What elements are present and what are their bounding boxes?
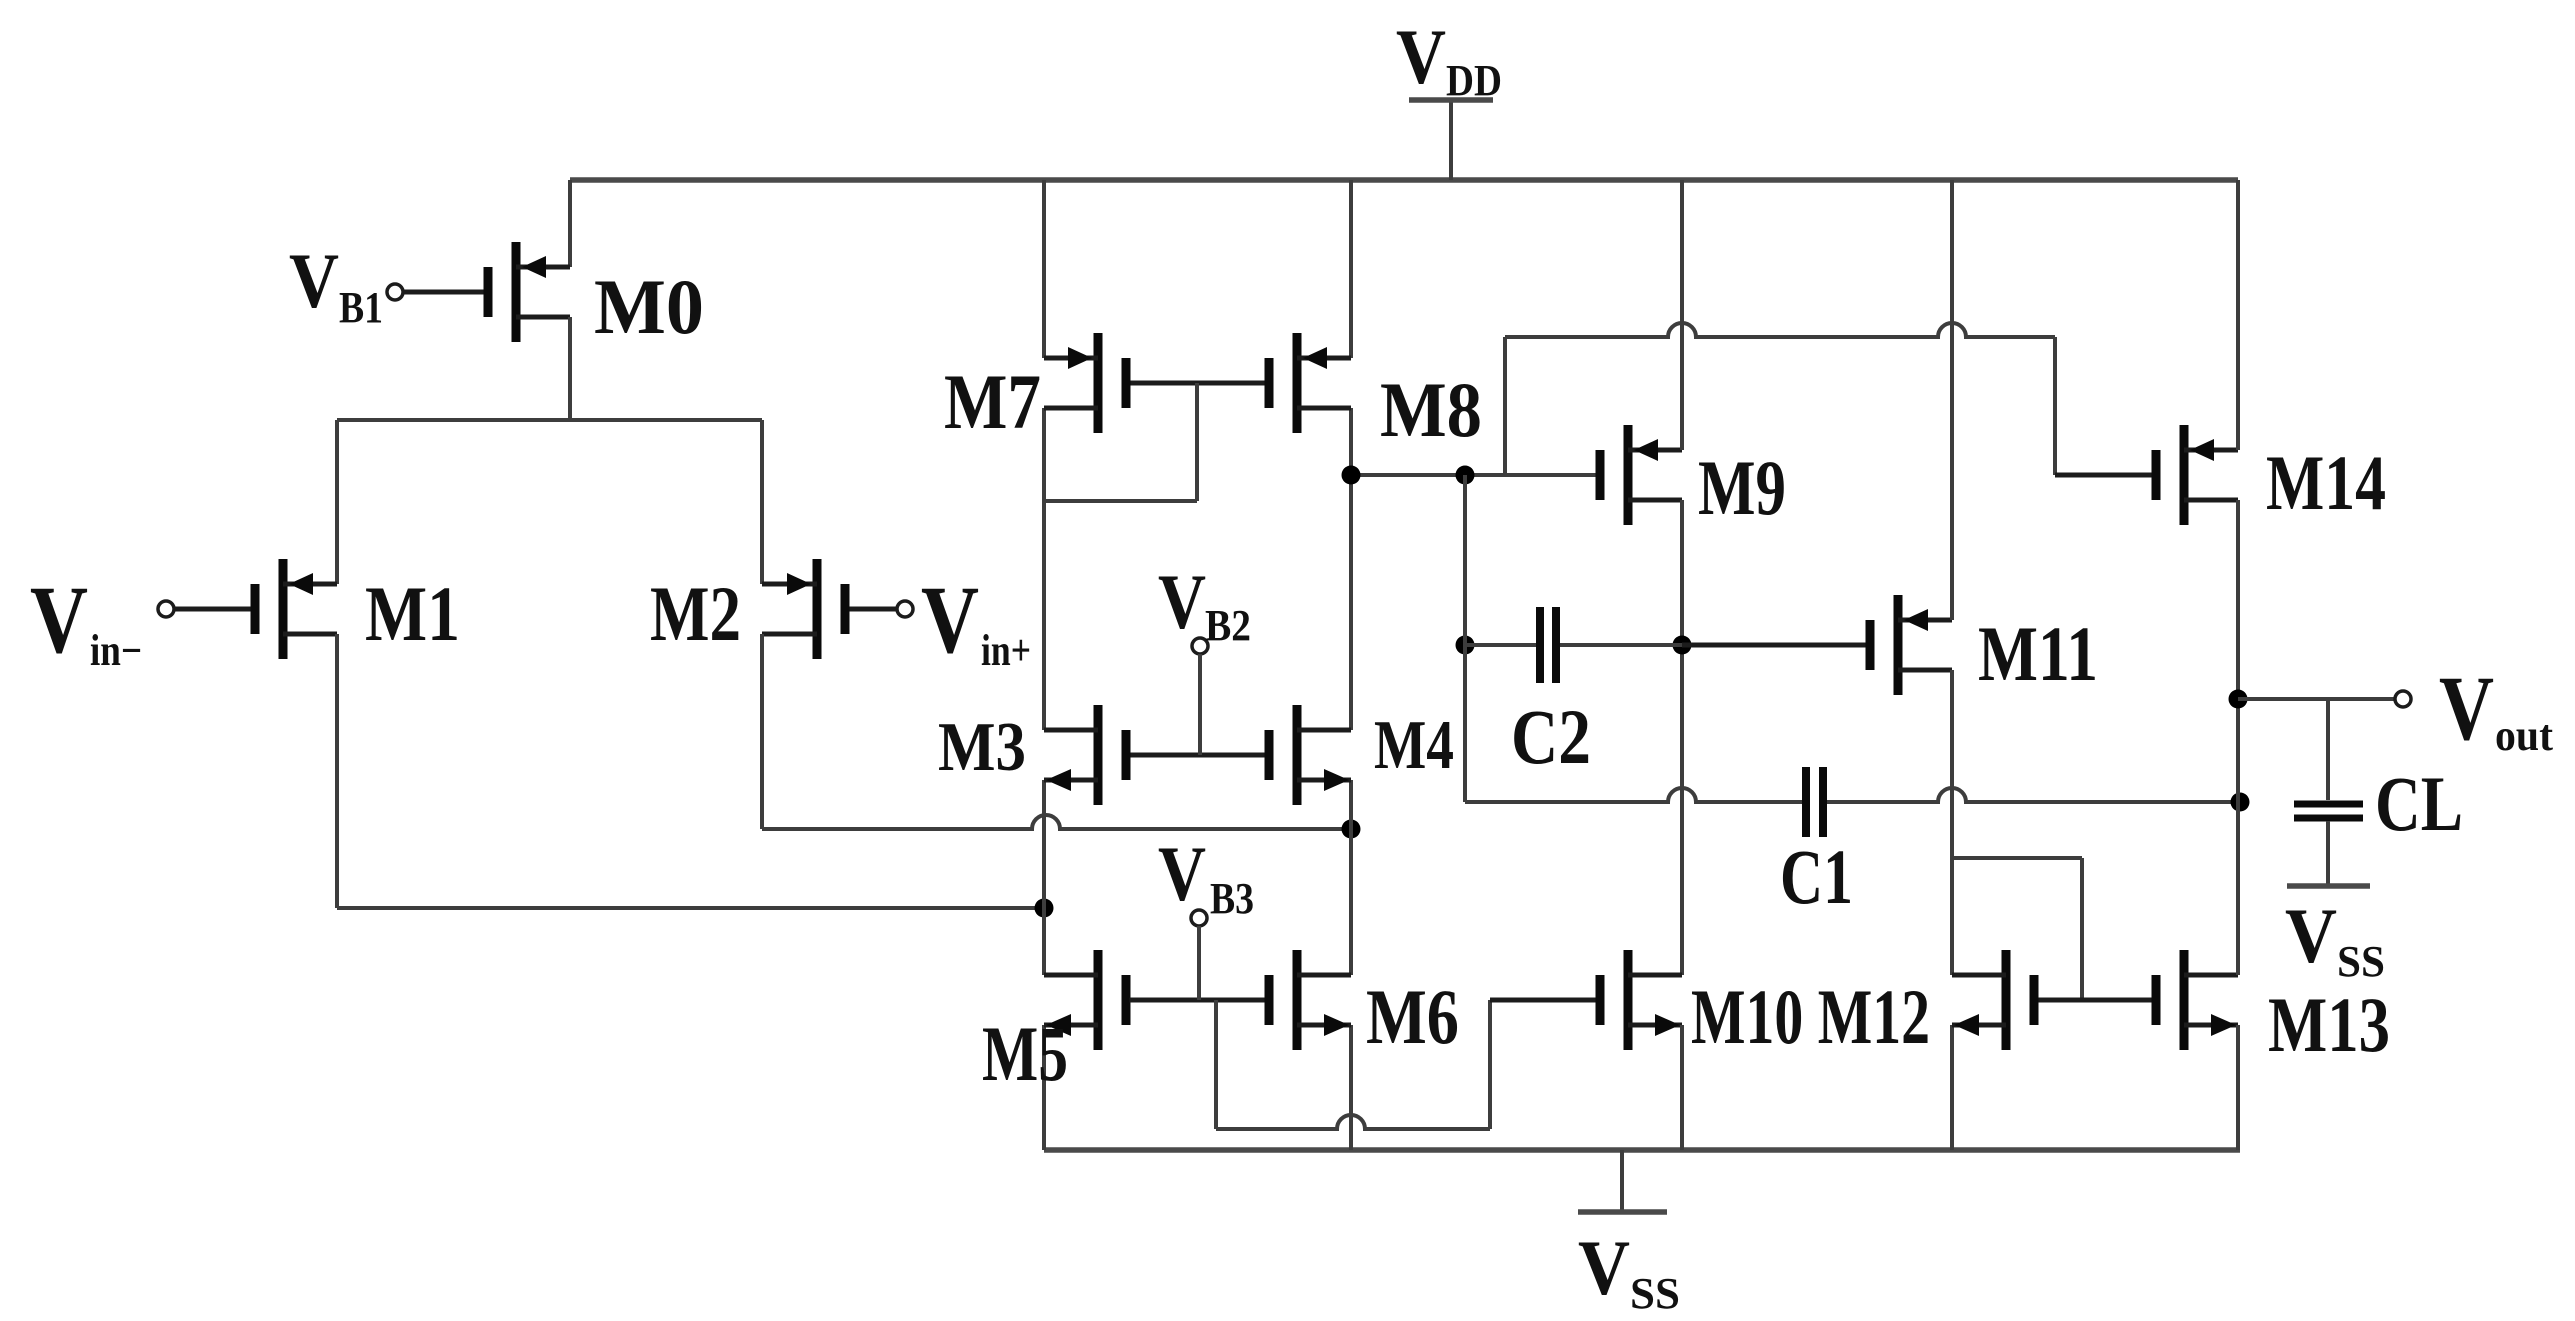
wire M12 M13 gate lead <box>2039 998 2152 1003</box>
svg-text:V: V <box>2285 892 2337 979</box>
node junction M1-M3-M5 <box>1035 899 1054 918</box>
svg-text:V: V <box>1578 1224 1630 1311</box>
svg-text:V: V <box>2439 657 2494 759</box>
power VDD symbol <box>1396 13 1502 180</box>
node junction C2 top <box>1456 466 1475 485</box>
wire node to M14 gate <box>1505 323 2152 475</box>
wire M7 gate-drain diode connection <box>1044 383 1197 501</box>
transistor M4 <box>1265 705 1455 805</box>
transistor M7 <box>944 333 1131 445</box>
svg-text:M11: M11 <box>1978 610 2098 697</box>
svg-text:V: V <box>1158 830 1206 917</box>
node Vin+ <box>850 566 1032 675</box>
wire VDD top rail <box>570 177 2238 183</box>
node Vout terminal <box>2238 657 2553 760</box>
svg-text:M9: M9 <box>1698 444 1786 531</box>
wire M1 M2 source rail <box>337 418 762 422</box>
power VSS symbol bottom <box>1578 1150 1680 1318</box>
svg-text:M0: M0 <box>594 263 704 350</box>
transistor M3 <box>938 705 1131 805</box>
capacitor CL <box>2294 699 2463 884</box>
wire M1 drain down <box>335 634 339 908</box>
wire M1 source up <box>335 420 339 584</box>
svg-text:out: out <box>2495 711 2553 760</box>
transistor M11 <box>1866 595 2099 697</box>
svg-text:DD: DD <box>1446 56 1502 105</box>
svg-text:in−: in− <box>90 626 142 675</box>
capacitor C1 <box>1465 767 2240 920</box>
wire M12 source to VSS rail <box>1950 1025 1954 1150</box>
wire VDD rail to M8 source <box>1349 180 1353 358</box>
transistor M8 <box>1265 333 1483 453</box>
wire M5 gate net to M10 gate <box>1216 1000 1596 1129</box>
transistor M9 <box>1596 425 1787 531</box>
transistor M0 <box>484 242 705 350</box>
svg-text:M14: M14 <box>2266 439 2386 526</box>
node Vin- <box>30 566 251 675</box>
transistor M14 <box>2152 425 2387 526</box>
svg-text:B1: B1 <box>339 283 383 332</box>
svg-text:M4: M4 <box>1374 707 1454 784</box>
node VB1 <box>289 237 484 332</box>
wire M3 source to M5 drain <box>1042 780 1046 975</box>
wire M2 drain to M6 node <box>762 815 1351 829</box>
node junction C2 right <box>1673 636 1692 655</box>
svg-text:B3: B3 <box>1210 874 1254 923</box>
svg-text:M8: M8 <box>1380 366 1482 453</box>
transistor M5 <box>982 950 1131 1097</box>
wire M6 source to VSS rail <box>1349 1025 1353 1150</box>
power VSS symbol at CL <box>2285 886 2385 986</box>
svg-text:V: V <box>289 237 339 324</box>
wire C2 left vertical <box>1463 475 1467 802</box>
svg-text:SS: SS <box>2337 937 2385 986</box>
wire M1 drain to M5 node <box>337 906 1044 910</box>
node junction Vout <box>2229 690 2248 709</box>
transistor M12 <box>1952 950 2039 1050</box>
capacitor C2 <box>1465 607 1682 780</box>
svg-text:C2: C2 <box>1511 693 1591 780</box>
wire VDD rail to M14 source <box>2236 180 2240 450</box>
wire M10 source to VSS rail <box>1680 1025 1684 1150</box>
wire VSS bottom rail <box>1044 1147 2240 1153</box>
svg-text:SS: SS <box>1630 1269 1680 1318</box>
wire M7 M8 gate lead <box>1131 381 1265 386</box>
transistor M10 <box>1596 950 1931 1060</box>
svg-text:B2: B2 <box>1205 601 1251 650</box>
transistor M2 <box>650 559 850 659</box>
wire VDD rail to M9 source <box>1680 180 1684 450</box>
wire M0 source to VDD rail <box>568 180 572 267</box>
node junction M2-M4-M6 <box>1342 820 1361 839</box>
node VB3 <box>1158 830 1254 1000</box>
node junction C2 left <box>1456 636 1475 655</box>
svg-text:V: V <box>1158 558 1206 645</box>
svg-text:M7: M7 <box>944 358 1041 445</box>
svg-text:V: V <box>921 566 979 673</box>
svg-text:M1: M1 <box>365 570 460 657</box>
wire M8 drain node to M9 gate <box>1351 473 1596 477</box>
transistor M13 <box>2152 950 2391 1068</box>
wire M2 source up <box>760 420 764 584</box>
transistor M6 <box>1265 950 1460 1060</box>
wire M0 drain to tail node <box>568 317 572 420</box>
svg-text:in+: in+ <box>981 626 1031 675</box>
svg-text:M10 M12: M10 M12 <box>1691 973 1930 1060</box>
wire VDD rail to M7 source <box>1042 180 1046 358</box>
wire M3 M4 gate lead <box>1131 753 1265 758</box>
svg-text:CL: CL <box>2375 760 2463 847</box>
svg-text:M5: M5 <box>982 1010 1068 1097</box>
transistor M1 <box>251 559 461 659</box>
wire C2 to M11 gate <box>1682 643 1866 648</box>
wire M11 drain to M12 drain <box>1950 670 1954 975</box>
svg-text:M6: M6 <box>1366 973 1459 1060</box>
wire M9 drain down to M10 <box>1680 500 1684 975</box>
wire M13 source to VSS rail <box>2236 1025 2240 1150</box>
wire M5 M6 gate lead <box>1130 998 1265 1003</box>
wire M8 drain to M4 drain <box>1349 408 1353 730</box>
svg-text:M3: M3 <box>938 709 1026 786</box>
wire M12 gate-drain diode connection <box>1952 858 2082 1000</box>
svg-text:M13: M13 <box>2268 981 2390 1068</box>
wire VDD rail to M11 source <box>1950 180 1954 620</box>
svg-text:V: V <box>1396 13 1446 100</box>
node junction C1 right <box>2231 793 2250 812</box>
svg-text:C1: C1 <box>1780 833 1853 920</box>
svg-text:M2: M2 <box>650 570 741 657</box>
wire M2 drain down <box>760 634 764 829</box>
svg-text:V: V <box>30 566 88 673</box>
node junction M8-M4 <box>1342 466 1361 485</box>
wire M7 drain to M3 drain <box>1042 408 1046 730</box>
wire M14 drain to output <box>2236 500 2240 975</box>
wire M4 source to M6 drain <box>1349 780 1353 975</box>
wire M5 source to VSS rail <box>1042 1025 1046 1150</box>
node VB2 <box>1158 558 1251 755</box>
